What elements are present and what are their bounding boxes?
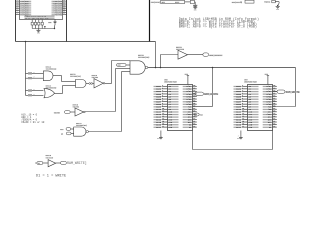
svg-text:27: 27 [63, 13, 65, 15]
svg-text:P37/RD: P37/RD [55, 13, 63, 16]
wire: drop to U56 WE [212, 68, 214, 107]
U55 bottom pin name strip [25, 15, 55, 16]
svg-text:NC: NC [269, 126, 272, 129]
buffer U54-B write indicator [46, 155, 51, 156]
svg-text:GND: GND [276, 9, 279, 11]
and-gate U51-A [46, 66, 51, 67]
svg-text:17: 17 [162, 126, 164, 128]
svg-text:BM0=1, A0=0 => Byte Transfer S: BM0=1, A0=0 => Byte Transfer ST_0 (MSB) [179, 25, 257, 30]
ground below U57 [240, 131, 242, 138]
and-gate U52-A [70, 74, 75, 75]
ram U56 body [164, 79, 167, 80]
svg-text:25: 25 [63, 10, 65, 12]
or-gate U51-B [46, 85, 51, 86]
svg-text:req(1A: req(1A [264, 1, 271, 4]
wire: bottom rail of sub-sheet net [16, 41, 156, 43]
svg-text:T0 T1 INT EA ALE PSE: T0 T1 INT EA ALE PSE [25, 17, 50, 20]
svg-text:GND: GND [37, 33, 40, 35]
svg-text:A18: A18 [60, 128, 63, 131]
svg-text:14: 14 [162, 117, 164, 120]
IC U55 microcontroller body [20, 0, 63, 20]
node IO+RD input label [54, 112, 60, 113]
wire [55, 93, 63, 95]
wire: main RAM select net [148, 67, 296, 69]
U55 pin rows left and right [16, 0, 20, 2]
svg-text:20: 20 [63, 0, 65, 2]
svg-text:6: 6 [17, 10, 18, 12]
power VCC above U57 [265, 74, 268, 75]
svg-text:4: 4 [17, 6, 18, 8]
buffer U54-A [176, 47, 182, 48]
svg-text:c=1(R-A): c=1(R-A) [151, 1, 160, 4]
svg-text:7: 7 [17, 11, 18, 13]
svg-text:22: 22 [63, 4, 65, 6]
svg-text:17: 17 [33, 77, 35, 79]
ground below U55 [36, 29, 40, 31]
node 1A label [240, 1, 242, 2]
wire: join to ground [31, 25, 33, 29]
svg-text:NC: NC [189, 126, 192, 129]
svg-text:24: 24 [273, 100, 275, 103]
svg-text:A19: A19 [118, 64, 121, 67]
node RAM_WRITE at U56 [193, 93, 196, 95]
svg-text:RAM_WRITE: RAM_WRITE [286, 91, 300, 94]
svg-text:GND: GND [157, 138, 160, 140]
svg-text:74LS08(2A): 74LS08(2A) [70, 75, 81, 78]
wire: U57 bottom chain [272, 131, 274, 150]
capacitor C2 with ground [194, 1, 197, 3]
svg-text:21: 21 [63, 2, 65, 4]
node RAM_ACCESS label [203, 53, 209, 56]
wire with bend to ground [275, 1, 279, 3]
ground below U56 [160, 131, 162, 138]
nand U51-3 with input labels [76, 123, 81, 124]
power VCC arrow [54, 25, 56, 28]
svg-text:IO+RD: IO+RD [54, 111, 61, 114]
node RAM_WRITE at U57 [273, 90, 278, 92]
svg-text:74LS00(2B): 74LS00(2B) [138, 56, 149, 59]
wire: riser from sheet rail [155, 42, 157, 68]
svg-text:RES: RES [162, 2, 165, 4]
svg-text:17: 17 [242, 126, 244, 128]
svg-text:RAM_WRITE]: RAM_WRITE] [67, 161, 87, 165]
svg-text:/OE: /OE [200, 115, 203, 117]
node labels along top edge [151, 2, 160, 3]
svg-text:D1: D1 [38, 163, 40, 165]
U56 pin rows with numbers and names [162, 85, 168, 87]
svg-text:17: 17 [33, 89, 35, 91]
svg-text:10K: 10K [48, 22, 52, 24]
svg-text:A16: A16 [248, 126, 253, 129]
wire: vertical rail feeding gate inputs [25, 42, 27, 96]
svg-text:34: 34 [193, 125, 195, 128]
ram U57 body [244, 79, 247, 80]
svg-text:4: 4 [242, 92, 243, 95]
wire: U53-A out up to U52-B in1 [105, 83, 112, 85]
svg-text:4: 4 [162, 92, 163, 95]
wire with bubbles [86, 83, 89, 85]
svg-text:74LS125: 74LS125 [46, 157, 54, 159]
svg-text:A16: A16 [168, 126, 173, 129]
wire: riser to buffer U54-A [160, 55, 162, 68]
wire: bottom chain between RAMs [193, 149, 273, 151]
wire: drop to U57 WE [295, 68, 297, 107]
svg-text:17: 17 [33, 72, 35, 74]
inverter U53-A [92, 75, 97, 76]
svg-text:1A17: 1A17 [156, 126, 162, 129]
svg-text:osc1: osc1 [175, 2, 179, 4]
svg-text:GND: GND [237, 138, 240, 140]
svg-text:8: 8 [17, 13, 18, 15]
svg-text:U56/U58 RAM: U56/U58 RAM [244, 81, 257, 84]
svg-text:17: 17 [33, 94, 35, 96]
svg-text:U56/U58 RAM: U56/U58 RAM [164, 81, 177, 84]
svg-text:23: 23 [63, 6, 65, 8]
capacitor C1 [54, 19, 56, 21]
node A19 oval label [117, 64, 127, 67]
node Acc label [232, 2, 242, 3]
wire: U56 bottom chain [192, 131, 194, 150]
wire: U51-3 riser [121, 72, 123, 132]
svg-text:3: 3 [238, 136, 239, 138]
svg-text:2: 2 [17, 2, 18, 4]
ground [276, 5, 280, 7]
resistor pack below U55 [31, 20, 33, 23]
svg-text:5: 5 [17, 8, 18, 10]
wire: inverter U53-B riser [115, 69, 117, 112]
nand U52-B [138, 55, 144, 56]
svg-text:74LS08(1A): 74LS08(1A) [46, 68, 57, 71]
svg-text:1: 1 [17, 0, 18, 2]
svg-text:1A: 1A [240, 1, 243, 4]
svg-text:34: 34 [273, 125, 275, 128]
svg-text:3: 3 [17, 4, 18, 6]
svg-text:14: 14 [242, 117, 244, 120]
U57 pin rows with numbers and names [242, 85, 248, 87]
power VCC above U56 [185, 74, 188, 75]
svg-text:24: 24 [193, 100, 195, 103]
svg-text:24: 24 [63, 8, 65, 10]
wire [185, 1, 191, 3]
svg-text:RAM_ACCESS: RAM_ACCESS [209, 54, 223, 57]
svg-text:74LS125: 74LS125 [176, 48, 185, 51]
svg-text:D1 = 1 = WRITE: D1 = 1 = WRITE [36, 174, 66, 178]
node /OE at U56 [195, 113, 200, 116]
gate input junction bubbles [28, 73, 30, 75]
svg-text:WR: WR [61, 134, 63, 136]
svg-text:RAM_WRITE: RAM_WRITE [204, 93, 218, 96]
inverter U53-B [73, 104, 78, 105]
svg-text:GND: GND [194, 10, 197, 12]
frame: left sub-sheet borders [15, 0, 17, 42]
wire [53, 75, 62, 77]
svg-text:1A17: 1A17 [236, 126, 242, 129]
svg-text:26: 26 [63, 11, 65, 13]
svg-text:IO+RD = 01 or 10: IO+RD = 01 or 10 [21, 121, 45, 124]
